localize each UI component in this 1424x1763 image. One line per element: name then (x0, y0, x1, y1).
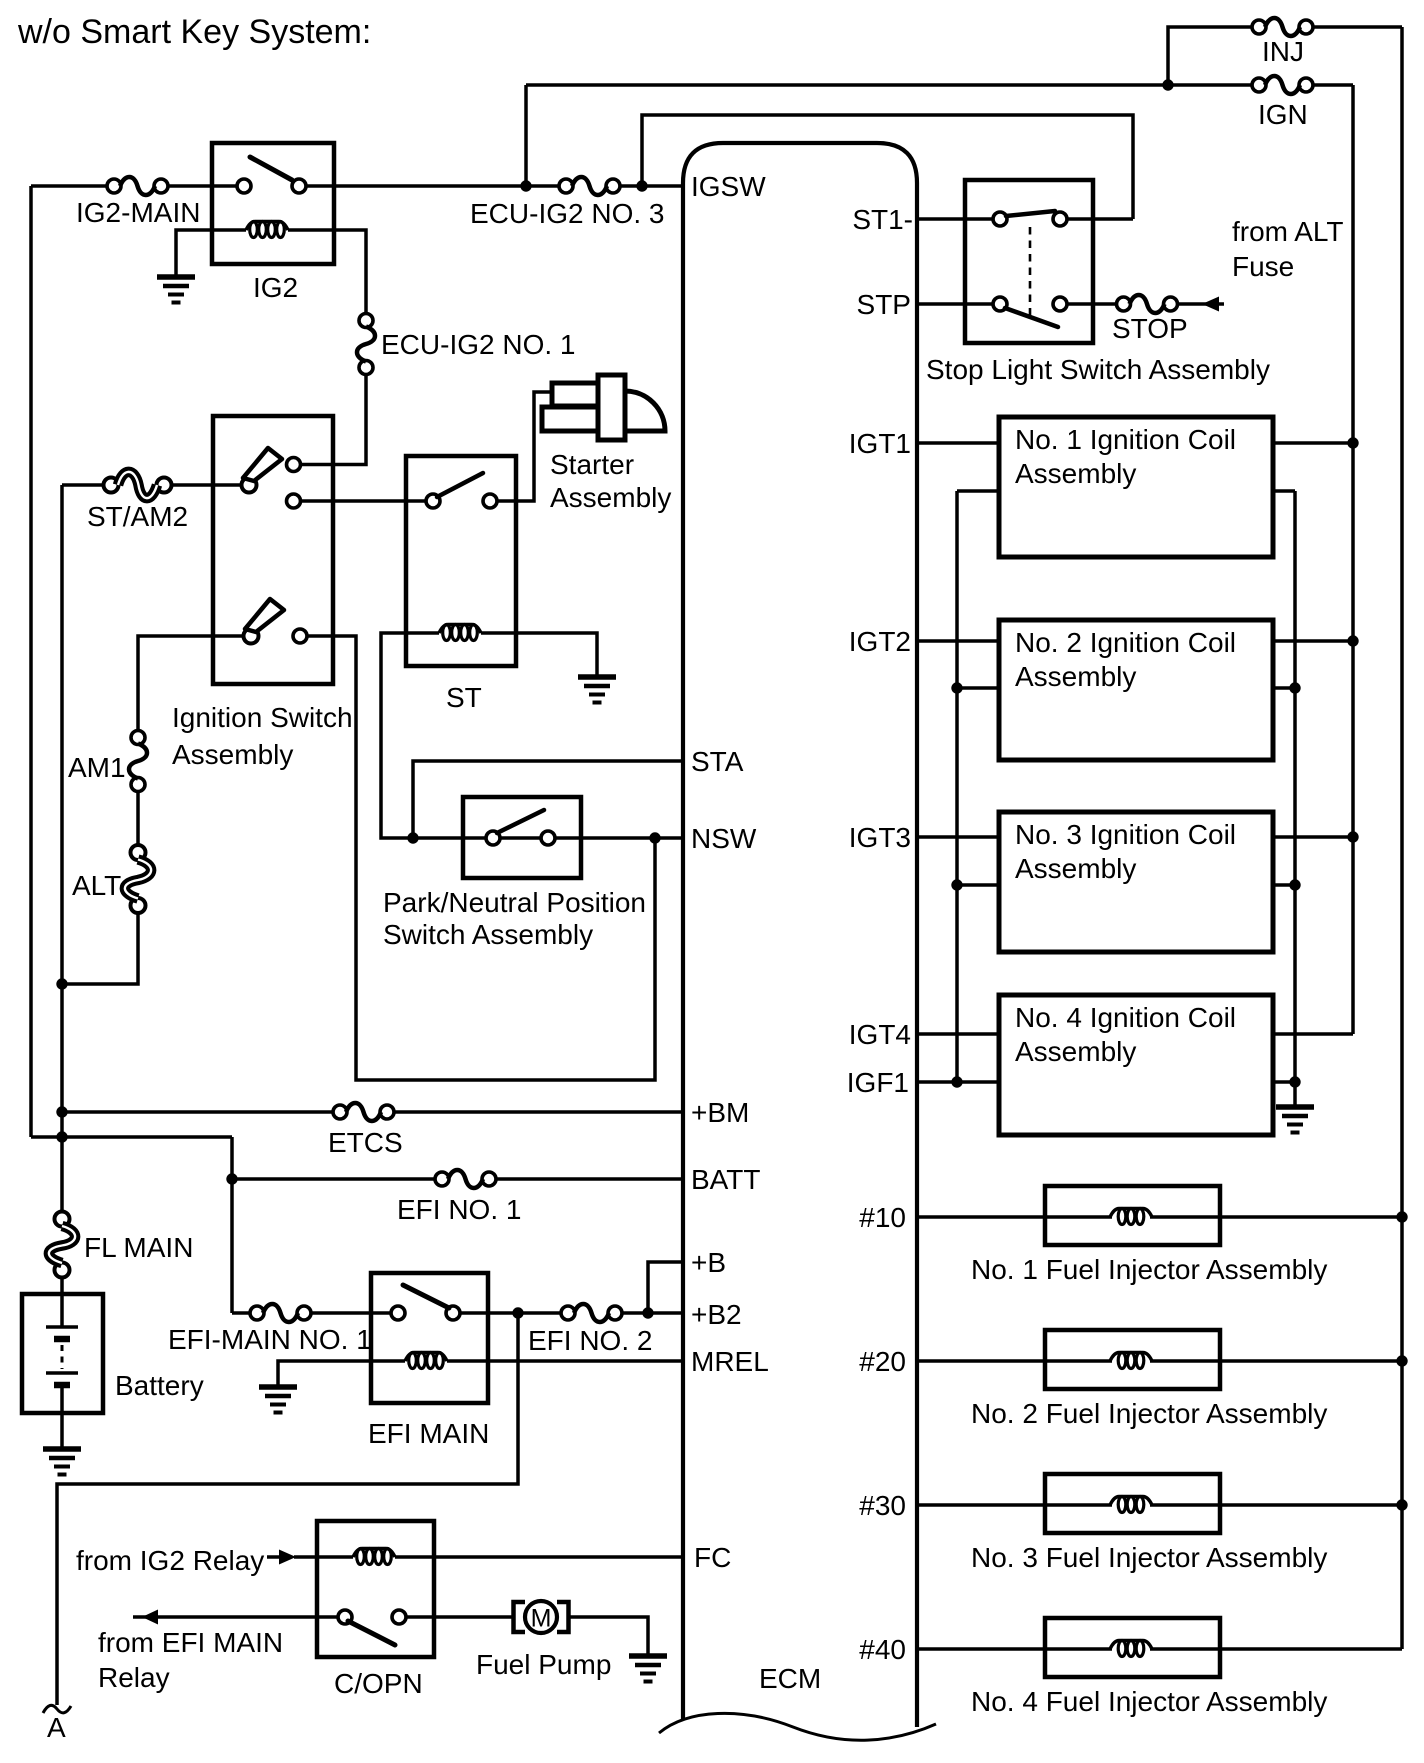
node junction IGSW-INJ riser (520, 180, 531, 191)
C/OPN relay coil (353, 1549, 395, 1565)
fusible link ALT (125, 845, 151, 913)
wire No.1 injector to supply bus (1150, 1215, 1402, 1219)
node No.2 coil IGF bus junction (951, 682, 962, 693)
wire AM1 feed to ignition switch lower pivot (138, 636, 251, 738)
wire ALT to battery rail (62, 906, 138, 984)
svg-text:Stop Light Switch Assembly: Stop Light Switch Assembly (926, 354, 1270, 385)
svg-text:from IG2 Relay: from IG2 Relay (76, 1545, 264, 1576)
wire No.4 coil to IGN bus end (1273, 1032, 1353, 1036)
wire injector supply bus vertical x=1402 (1400, 27, 1404, 1649)
wire ETCS fuse to ECM +BM pin (387, 1110, 683, 1114)
wire ECM #20 pin to No.2 injector (917, 1359, 1112, 1363)
fuel injector No.4 solenoid coil (1110, 1641, 1152, 1657)
battery cell2 positive plate (46, 1371, 78, 1374)
svg-text:INJ: INJ (1262, 36, 1304, 67)
wire EFI branch vertical x=232 (230, 1137, 234, 1313)
wire IG2-MAIN fuse to IG2 relay contact (161, 184, 244, 188)
fuse ETCS (333, 1103, 394, 1121)
svg-text:BATT: BATT (691, 1164, 760, 1195)
svg-text:+BM: +BM (691, 1097, 749, 1128)
svg-text:C/OPN: C/OPN (334, 1668, 423, 1699)
ground EFI MAIN relay coil (259, 1387, 297, 1413)
fuel pump motor M1 circle (525, 1601, 557, 1633)
svg-text:Park/Neutral Position: Park/Neutral Position (383, 887, 646, 918)
ignition coil No.2 box (999, 620, 1273, 760)
wire left rail vertical x=31 (29, 186, 33, 1137)
svg-text:Battery: Battery (115, 1370, 204, 1401)
wire ECM IGT1 pin to No.1 ignition coil (917, 441, 999, 445)
svg-text:ECU-IG2 NO. 1: ECU-IG2 NO. 1 (381, 329, 575, 360)
svg-text:Switch Assembly: Switch Assembly (383, 919, 593, 950)
fuel injector No.2 solenoid coil (1110, 1353, 1152, 1369)
wire INJ fuse to injector bus (1306, 25, 1402, 29)
svg-text:Assembly: Assembly (550, 482, 671, 513)
wire ignition coil supply bus vertical x=1353 (1351, 85, 1355, 1034)
wire riser from IGSW node to top bus (524, 85, 528, 186)
svg-text:No. 2 Ignition Coil: No. 2 Ignition Coil (1015, 627, 1236, 658)
relay EFI MAIN box (371, 1273, 488, 1403)
fuse INJ (1252, 18, 1313, 36)
svg-text:ST: ST (446, 682, 482, 713)
battery cell1 negative plate (54, 1336, 70, 1343)
wire IGN fuse to ignition coil bus (1306, 83, 1353, 87)
wire C/OPN contact to fuel pump (399, 1615, 513, 1619)
wire ST1- riser from IGSW node (642, 115, 1133, 219)
ignition switch lower output contact (293, 629, 307, 643)
wire ECM #30 pin to No.3 injector (917, 1503, 1112, 1507)
svg-text:ETCS: ETCS (328, 1127, 403, 1158)
wire stop light switch to STOP fuse (1060, 302, 1123, 306)
wire left rail to ST/AM2 fusible link (62, 483, 111, 487)
wire battery negative to ground (60, 1387, 64, 1449)
svg-text:Relay: Relay (98, 1662, 170, 1693)
wire ignition switch ST contact to ST relay (294, 499, 434, 503)
stop light switch upper blade (closed) (1006, 211, 1055, 216)
wire No.2 coil pin to IGF bus (957, 686, 999, 690)
ignition switch upper key wedge (243, 448, 282, 481)
svg-text:Assembly: Assembly (172, 739, 293, 770)
fuel injector No.4 box (1045, 1618, 1220, 1677)
node junction ETCS branch (56, 1106, 67, 1117)
wire ECU-IG2 NO.3 fuse to ECM IGSW pin (613, 184, 683, 188)
svg-text:#40: #40 (859, 1634, 906, 1665)
svg-text:No. 3 Ignition Coil: No. 3 Ignition Coil (1015, 819, 1236, 850)
wire ignition switch lower contact loop to NSW node (300, 636, 655, 1080)
node No.1 injector bus junction (1396, 1211, 1407, 1222)
ignition coil No.1 box (999, 417, 1273, 557)
fusible link FL MAIN (49, 1212, 75, 1278)
svg-text:FC: FC (694, 1542, 731, 1573)
park/neutral switch contacts (486, 831, 555, 845)
fusible link ST/AM2 (104, 472, 172, 498)
wire STOP fuse to ALT fuse feed (1171, 302, 1224, 306)
switch Park/Neutral Position box (463, 797, 581, 878)
wire EFI NO.1 fuse to ECM BATT pin (489, 1177, 683, 1181)
arrow from EFI MAIN relay (pointing left) (142, 1610, 158, 1625)
wire No.3 coil to IGN bus (1273, 835, 1353, 839)
ignition switch lower key wedge (245, 599, 284, 632)
svg-text:from EFI MAIN: from EFI MAIN (98, 1627, 283, 1658)
svg-text:IGF1: IGF1 (847, 1067, 909, 1098)
node No.1 coil IGN bus junction (1347, 437, 1358, 448)
svg-text:ST1-: ST1- (852, 204, 913, 235)
wire to EFI NO.1 fuse (232, 1177, 442, 1181)
stop light switch upper contacts (993, 212, 1067, 226)
ignition switch upper output contacts (287, 458, 301, 509)
wire No.1 coil pin to IGF bus (957, 489, 999, 493)
wire ECM IGT3 pin to No.3 ignition coil (917, 835, 999, 839)
relay ST box (406, 456, 516, 666)
wire ST relay contact to starter assembly (490, 392, 552, 501)
stop light switch lower blade (open) (1005, 308, 1058, 327)
svg-text:IGN: IGN (1258, 99, 1308, 130)
wire No.1 coil pin to right ground bus (1273, 489, 1295, 493)
wire ECM IGT2 pin to No.2 ignition coil (917, 639, 999, 643)
wire IG2 coil to ECU-IG2 NO.1 fuse (288, 230, 366, 320)
wire ECM STP pin to stop light switch (917, 302, 1000, 306)
wire INJ branch riser (1168, 27, 1259, 85)
break symbol wire A tilde (43, 1705, 71, 1713)
EFI MAIN relay blade (403, 1285, 449, 1308)
wire ECM ST1- pin to stop light switch (917, 217, 1000, 221)
wire to EFI-MAIN NO.1 fuse (232, 1311, 257, 1315)
IG2 relay switch blade (250, 157, 292, 180)
svg-text:Starter: Starter (550, 449, 634, 480)
svg-text:EFI-MAIN NO. 1: EFI-MAIN NO. 1 (168, 1324, 372, 1355)
wire left rail bottom joining battery rail (31, 1135, 232, 1139)
wire EFI MAIN feed to C/OPN contact (156, 1615, 345, 1619)
ST relay contacts (426, 494, 497, 508)
wire No.2 coil pin to right ground bus (1273, 686, 1295, 690)
park/neutral switch blade (497, 810, 544, 833)
wire FL MAIN to battery positive plate (60, 1270, 64, 1326)
svg-text:Fuse: Fuse (1232, 251, 1294, 282)
svg-text:ALT: ALT (72, 870, 121, 901)
wire EFI-MAIN NO.1 fuse to EFI MAIN relay (304, 1311, 398, 1315)
wire No.3 injector to supply bus (1150, 1503, 1402, 1507)
fuse EFI NO. 2 (561, 1304, 622, 1322)
svg-text:Ignition Switch: Ignition Switch (172, 702, 353, 733)
svg-text:Fuel Pump: Fuel Pump (476, 1649, 611, 1680)
fuse EFI NO. 1 (435, 1170, 496, 1188)
svg-text:EFI NO. 2: EFI NO. 2 (528, 1325, 652, 1356)
switch Ignition Switch Assembly box (213, 416, 333, 684)
fuse AM1 (129, 731, 147, 792)
svg-text:IG2-MAIN: IG2-MAIN (76, 197, 200, 228)
svg-text:IGT3: IGT3 (849, 822, 911, 853)
fuse IG2-MAIN (107, 177, 168, 195)
wire fuel pump to ground (568, 1617, 648, 1656)
node junction +B stub (642, 1307, 653, 1318)
node IGF1 bus junction (951, 1076, 962, 1087)
svg-text:#30: #30 (859, 1490, 906, 1521)
wire NSW node through park/neutral switch to ECM NSW pin (413, 836, 683, 840)
fuse ECU-IG2 NO. 3 (559, 177, 620, 195)
node No.2 coil ground bus junction (1289, 682, 1300, 693)
svg-text:Assembly: Assembly (1015, 458, 1136, 489)
wire from IG2 relay arrow tail (267, 1555, 281, 1559)
node junction ALT-battery rail (56, 978, 67, 989)
wire ECM IGF1 pin to No.4 coil (917, 1080, 999, 1084)
ST relay blade (437, 473, 483, 497)
svg-text:No. 4 Fuel Injector Assembly: No. 4 Fuel Injector Assembly (971, 1686, 1327, 1717)
ECM U1 body outline (683, 143, 917, 1727)
fuel injector No.3 box (1045, 1474, 1220, 1533)
svg-text:EFI MAIN: EFI MAIN (368, 1418, 489, 1449)
node No.2 injector bus junction (1396, 1355, 1407, 1366)
svg-text:AM1: AM1 (68, 752, 126, 783)
fuse ECU-IG2 NO. 1 (357, 314, 375, 375)
wire IG2 coil to ground stub (176, 230, 246, 277)
svg-text:IGSW: IGSW (691, 171, 766, 202)
fuse STOP (1117, 295, 1178, 313)
ground fuel pump (629, 1656, 667, 1682)
stop light switch lower contacts (993, 297, 1067, 311)
wire No.4 injector to supply bus (1150, 1647, 1402, 1651)
wire AM1 to ALT (136, 784, 140, 852)
svg-text:Assembly: Assembly (1015, 853, 1136, 884)
wire ECM STA pin to NSW node (413, 761, 683, 838)
node junction INJ branch (1162, 79, 1173, 90)
wire EFI NO.2 fuse to ECM +B2 pin (615, 1311, 683, 1315)
svg-text:M: M (531, 1605, 552, 1633)
relay C/OPN box (317, 1521, 434, 1657)
svg-text:#20: #20 (859, 1346, 906, 1377)
fuel injector No.3 solenoid coil (1110, 1497, 1152, 1513)
wire battery feed left bus top segment (IG2-MAIN to left rail) (31, 184, 114, 188)
svg-text:No. 1 Ignition Coil: No. 1 Ignition Coil (1015, 424, 1236, 455)
svg-text:#10: #10 (859, 1202, 906, 1233)
svg-text:No. 1 Fuel Injector Assembly: No. 1 Fuel Injector Assembly (971, 1254, 1327, 1285)
svg-text:A: A (47, 1712, 66, 1743)
wire ST relay coil to ground (481, 633, 597, 677)
starter assembly housing quarter-disc (625, 391, 665, 431)
ST relay coil (439, 625, 481, 641)
ignition switch lower pivot contact (244, 629, 259, 644)
wire EFI MAIN relay coil to ECM MREL pin (447, 1359, 683, 1363)
wire No.4 coil right pin to ground bus (1273, 1080, 1295, 1084)
wire C/OPN coil feed to ECM FC pin (294, 1555, 353, 1559)
fuel injector No.2 box (1045, 1330, 1220, 1389)
wire from EFI MAIN relay arrow tail (133, 1615, 156, 1619)
wire No.3 coil pin to IGF bus (957, 883, 999, 887)
wire IG2 relay output to ECM IGSW (299, 184, 566, 188)
svg-text:ST/AM2: ST/AM2 (87, 501, 188, 532)
battery box (22, 1294, 103, 1413)
arrow from IG2 relay (pointing right) (279, 1550, 296, 1565)
svg-text:Assembly: Assembly (1015, 661, 1136, 692)
node NSW right junction (649, 832, 660, 843)
svg-text:IGT4: IGT4 (849, 1019, 911, 1050)
fuel pump motor right terminal bracket (557, 1602, 569, 1632)
svg-text:NSW: NSW (691, 823, 757, 854)
wire C/OPN coil to ECM FC (395, 1555, 683, 1559)
node No.3 coil IGF bus junction (951, 879, 962, 890)
wire No.2 coil to IGN bus (1273, 639, 1353, 643)
wire No.2 injector to supply bus (1150, 1359, 1402, 1363)
wire +B stub to ECM +B pin (648, 1262, 683, 1313)
ECM torn bottom wavy edge (659, 1713, 936, 1740)
svg-text:IG2: IG2 (253, 272, 298, 303)
starter assembly motor upper body (552, 383, 598, 406)
C/OPN relay blade (open) (348, 1621, 395, 1645)
battery cell1 positive plate (46, 1325, 78, 1328)
fuel injector No.1 solenoid coil (1110, 1209, 1152, 1225)
node junction +B2 down-feed (512, 1307, 523, 1318)
ground ignition coil bus (1276, 1107, 1314, 1133)
svg-text:IGT2: IGT2 (849, 626, 911, 657)
wire ignition switch IG contact to ECU-IG2 NO.1 fuse (294, 368, 367, 465)
relay IG2 box (212, 143, 334, 264)
switch Stop Light Switch Assembly box (965, 180, 1093, 343)
svg-text:+B2: +B2 (691, 1299, 742, 1330)
EFI MAIN relay contacts (391, 1306, 460, 1320)
svg-text:w/o Smart Key System:: w/o Smart Key System: (17, 13, 371, 51)
ignition coil No.3 box (999, 812, 1273, 952)
svg-text:+B: +B (691, 1247, 726, 1278)
C/OPN relay contacts (338, 1610, 406, 1624)
wire top bus to IGN fuse (526, 83, 1259, 87)
node junction EFI NO.1 branch (226, 1173, 237, 1184)
node junction left rail join (56, 1131, 67, 1142)
svg-text:STP: STP (857, 289, 911, 320)
node No.3 injector bus junction (1396, 1499, 1407, 1510)
svg-text:ECU-IG2 NO. 3: ECU-IG2 NO. 3 (470, 198, 664, 229)
fuel injector No.1 box (1045, 1186, 1220, 1245)
arrow from ALT fuse (pointing left) (1202, 297, 1219, 312)
node junction IGSW-ST1 riser (636, 180, 647, 191)
wire +B2 node down to bottom rail and connector A (57, 1313, 518, 1705)
svg-text:No. 3 Fuel Injector Assembly: No. 3 Fuel Injector Assembly (971, 1542, 1327, 1573)
wire stop light switch to ST1- riser (1060, 217, 1133, 221)
node coil ground bus bottom junction (1289, 1076, 1300, 1087)
IG2 relay contact pins (237, 179, 306, 193)
wire coil ground bus vertical x=1295 (1293, 491, 1297, 1107)
ground ST relay coil (578, 677, 616, 703)
wire battery rail vertical x=62 (60, 485, 64, 1211)
node No.3 coil IGN bus junction (1347, 831, 1358, 842)
node No.2 coil IGN bus junction (1347, 635, 1358, 646)
fuse EFI-MAIN NO. 1 (250, 1304, 311, 1322)
fuse IGN (1252, 76, 1313, 94)
starter assembly motor lower body (542, 407, 598, 431)
ignition switch upper pivot contact (242, 478, 257, 493)
svg-text:FL MAIN: FL MAIN (84, 1232, 193, 1263)
ground IG2 relay coil (157, 277, 195, 303)
wire ST/AM2 to ignition switch pivot (164, 483, 249, 487)
svg-text:IGT1: IGT1 (849, 428, 911, 459)
wire ECM #40 pin to No.4 injector (917, 1647, 1112, 1651)
svg-text:No. 4 Ignition Coil: No. 4 Ignition Coil (1015, 1002, 1236, 1033)
EFI MAIN relay coil (405, 1353, 447, 1369)
battery inter-cell dashed link (61, 1345, 64, 1369)
svg-text:MREL: MREL (691, 1346, 769, 1377)
stop light switch linkage dashed line (1029, 227, 1032, 315)
wire battery rail to ETCS fuse (62, 1110, 340, 1114)
node No.3 coil ground bus junction (1289, 879, 1300, 890)
svg-text:Assembly: Assembly (1015, 1036, 1136, 1067)
IG2 relay coil (246, 222, 288, 238)
svg-text:EFI NO. 1: EFI NO. 1 (397, 1194, 521, 1225)
wire No.1 coil to IGN bus (1273, 441, 1353, 445)
battery cell2 negative plate (54, 1382, 70, 1389)
fuel pump motor left terminal bracket (514, 1602, 526, 1632)
wire IGF bus vertical x=957 (955, 491, 959, 1082)
ground battery (43, 1449, 81, 1475)
svg-text:STA: STA (691, 746, 744, 777)
wire ST relay coil to NSW node (381, 633, 439, 838)
wire ECM IGT4 pin to No.4 ignition coil (917, 1032, 999, 1036)
node NSW left junction (407, 832, 418, 843)
wire No.3 coil pin to right ground bus (1273, 883, 1295, 887)
wire ECM #10 pin to No.1 injector (917, 1215, 1112, 1219)
wire EFI MAIN relay coil to ground (278, 1361, 405, 1387)
wire EFI MAIN relay contact to EFI NO.2 fuse (453, 1311, 568, 1315)
ignition coil No.4 box (999, 995, 1273, 1135)
svg-text:STOP: STOP (1112, 313, 1188, 344)
svg-text:ECM: ECM (759, 1663, 821, 1694)
svg-text:from ALT: from ALT (1232, 216, 1344, 247)
svg-text:No. 2 Fuel Injector Assembly: No. 2 Fuel Injector Assembly (971, 1398, 1327, 1429)
starter assembly pinion (598, 375, 625, 440)
